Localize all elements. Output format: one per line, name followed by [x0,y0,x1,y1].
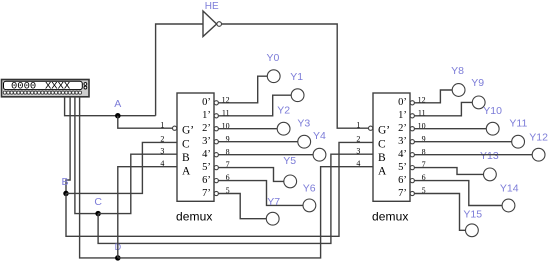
wire node D up to demux U1 pin 4 [118,167,177,258]
probe Y9 [472,96,485,109]
svg-text:Y9: Y9 [471,77,484,89]
svg-text:B: B [182,152,190,164]
svg-text:Y6: Y6 [303,183,316,195]
wire demux U2 pin 11 to probe Y9 [414,102,472,115]
svg-text:6’: 6’ [202,175,211,186]
svg-text:6’: 6’ [398,175,407,186]
svg-text:3: 3 [160,146,164,155]
probe Y8 [452,84,465,97]
svg-text:2: 2 [356,135,360,144]
svg-text:G’: G’ [378,125,390,137]
demux U2 input letters G' C B A [378,125,390,178]
svg-text:7’: 7’ [202,188,211,199]
svg-text:Y10: Y10 [483,105,502,117]
svg-text:Y15: Y15 [463,208,482,220]
svg-text:Y7: Y7 [267,196,280,208]
probe Y0 [267,70,280,83]
svg-text:0’: 0’ [202,97,211,108]
hex keyboard KB1 body [2,80,90,97]
svg-text:B: B [62,176,69,188]
svg-text:A: A [378,166,387,178]
demux U2 pin 1 bubble [369,126,373,130]
probe Y11 [512,135,525,148]
wire demux U1 pin 12 to probe Y0 [218,76,267,103]
wire keyboard bitB column down to node B [66,97,70,194]
wire node C rail to demux U2 pin 3 [98,154,373,243]
svg-text:Y14: Y14 [500,183,519,195]
svg-text:Y0: Y0 [267,52,280,64]
node A [115,113,121,119]
wire node C to demux U1 pin 3 [98,154,177,213]
demux U2 output letters 0'-7' [398,97,407,199]
wire node A rail up to inverter input [156,24,203,116]
svg-text:B: B [378,152,386,164]
wire demux U1 pin 5 to probe Y7 [218,194,266,219]
demux U1 output bubbles pins 12-5 [214,101,218,196]
wire keyboard bitD column down to node D [80,97,118,258]
demux U2 body [373,93,410,201]
wire node D rail to demux U2 pin 4 [118,167,373,258]
wire demux U2 pin 9 to probe Y11 [414,141,512,143]
probe Y13 [484,168,497,181]
wire node A down to demux U1 pin 1 [118,116,173,129]
wire demux U2 pin 7 to probe Y13 [414,168,484,175]
svg-text:A: A [182,166,191,178]
hex keyboard bottom hole strip [3,91,81,94]
wire demux U2 pin 5 to probe Y15 [414,194,465,231]
wire demux U1 pin 11 to probe Y1 [218,95,291,116]
svg-text:HE: HE [205,1,219,12]
svg-text:C: C [94,196,102,208]
svg-text:C: C [378,138,386,150]
svg-text:Y1: Y1 [290,71,303,83]
wire demux U1 pin 10 to probe Y2 [218,128,277,130]
svg-text:Y2: Y2 [277,104,290,116]
svg-text:4’: 4’ [398,149,407,160]
demux U1 output letters 0'-7' [202,97,211,199]
svg-text:1: 1 [356,120,360,129]
wire node B rail to demux U2 pin 2 [66,142,373,236]
probe Y15 [466,224,479,237]
demux U2 right pin numbers 12-5 [418,95,426,195]
svg-text:4: 4 [356,159,360,168]
probe Y10 [486,122,499,135]
svg-text:Y5: Y5 [283,155,296,167]
probe Y2 [277,122,290,135]
node B [63,191,69,197]
svg-text:5’: 5’ [202,162,211,173]
node C [95,211,101,217]
svg-text:Y13: Y13 [480,150,499,162]
svg-text:A: A [114,98,121,110]
wire demux U2 pin 10 to probe Y10 [414,128,486,130]
demux U2 output bubbles pins 12-5 [410,101,414,196]
probe Y6 [303,199,316,212]
svg-text:4’: 4’ [202,149,211,160]
demux U1 right pin numbers 12-5 [222,95,230,195]
svg-text:0’: 0’ [398,97,407,108]
wire demux U1 pin 9 to probe Y3 [218,141,298,143]
wire keyboard bitA column to node A rail [65,97,156,116]
probe Y4 [313,148,326,161]
wire inverter output to demux U2 pin 1 [222,24,369,128]
wire keyboard bitC column down to node C [75,97,98,214]
wire demux U1 pin 6 to probe Y6 [218,181,303,206]
svg-text:2: 2 [160,135,164,144]
svg-text:G’: G’ [182,125,194,137]
svg-text:2’: 2’ [398,123,407,134]
probe Y7 [266,212,279,225]
svg-text:demux: demux [372,209,409,223]
demux U2 left pin numbers 1-4 [356,120,360,167]
probe Y3 [298,135,311,148]
probe Y5 [284,175,297,188]
svg-text:Y4: Y4 [313,130,326,142]
node D [115,255,121,261]
wire demux U2 pin 8 to probe Y12 [414,154,532,156]
wire demux U1 pin 8 to probe Y4 [218,154,313,156]
svg-text:5’: 5’ [398,162,407,173]
svg-text:3’: 3’ [398,136,407,147]
inverter HE [203,11,222,37]
svg-text:4: 4 [160,159,164,168]
demux U1 pin 1 bubble [173,126,177,130]
svg-text:Y12: Y12 [529,131,548,143]
hex keyboard display value 0000 XXXX [11,81,71,93]
svg-text:1: 1 [160,120,164,129]
demux U1 left pin numbers 1-4 [160,120,164,167]
demux U1 input letters G' C B A [182,125,194,178]
svg-text:2’: 2’ [202,123,211,134]
svg-text:demux: demux [176,209,213,223]
svg-text:C: C [182,138,190,150]
probe Y12 [532,148,545,161]
demux U1 body [177,93,214,201]
wire demux U2 pin 6 to probe Y14 [414,181,502,206]
svg-text:7’: 7’ [398,188,407,199]
hex keyboard side buttons [84,83,87,89]
probe Y1 [291,89,304,102]
wire node B to demux U1 pin 2 [66,142,177,193]
svg-text:Y3: Y3 [297,117,310,129]
svg-text:3: 3 [356,146,360,155]
svg-text:1’: 1’ [202,110,211,121]
svg-text:Y11: Y11 [509,118,527,130]
probe Y14 [502,199,515,212]
svg-text:3’: 3’ [202,136,211,147]
svg-text:1’: 1’ [398,110,407,121]
svg-text:Y8: Y8 [451,65,464,77]
wire demux U1 pin 7 to probe Y5 [218,168,284,182]
wire demux U2 pin 12 to probe Y8 [414,90,452,103]
